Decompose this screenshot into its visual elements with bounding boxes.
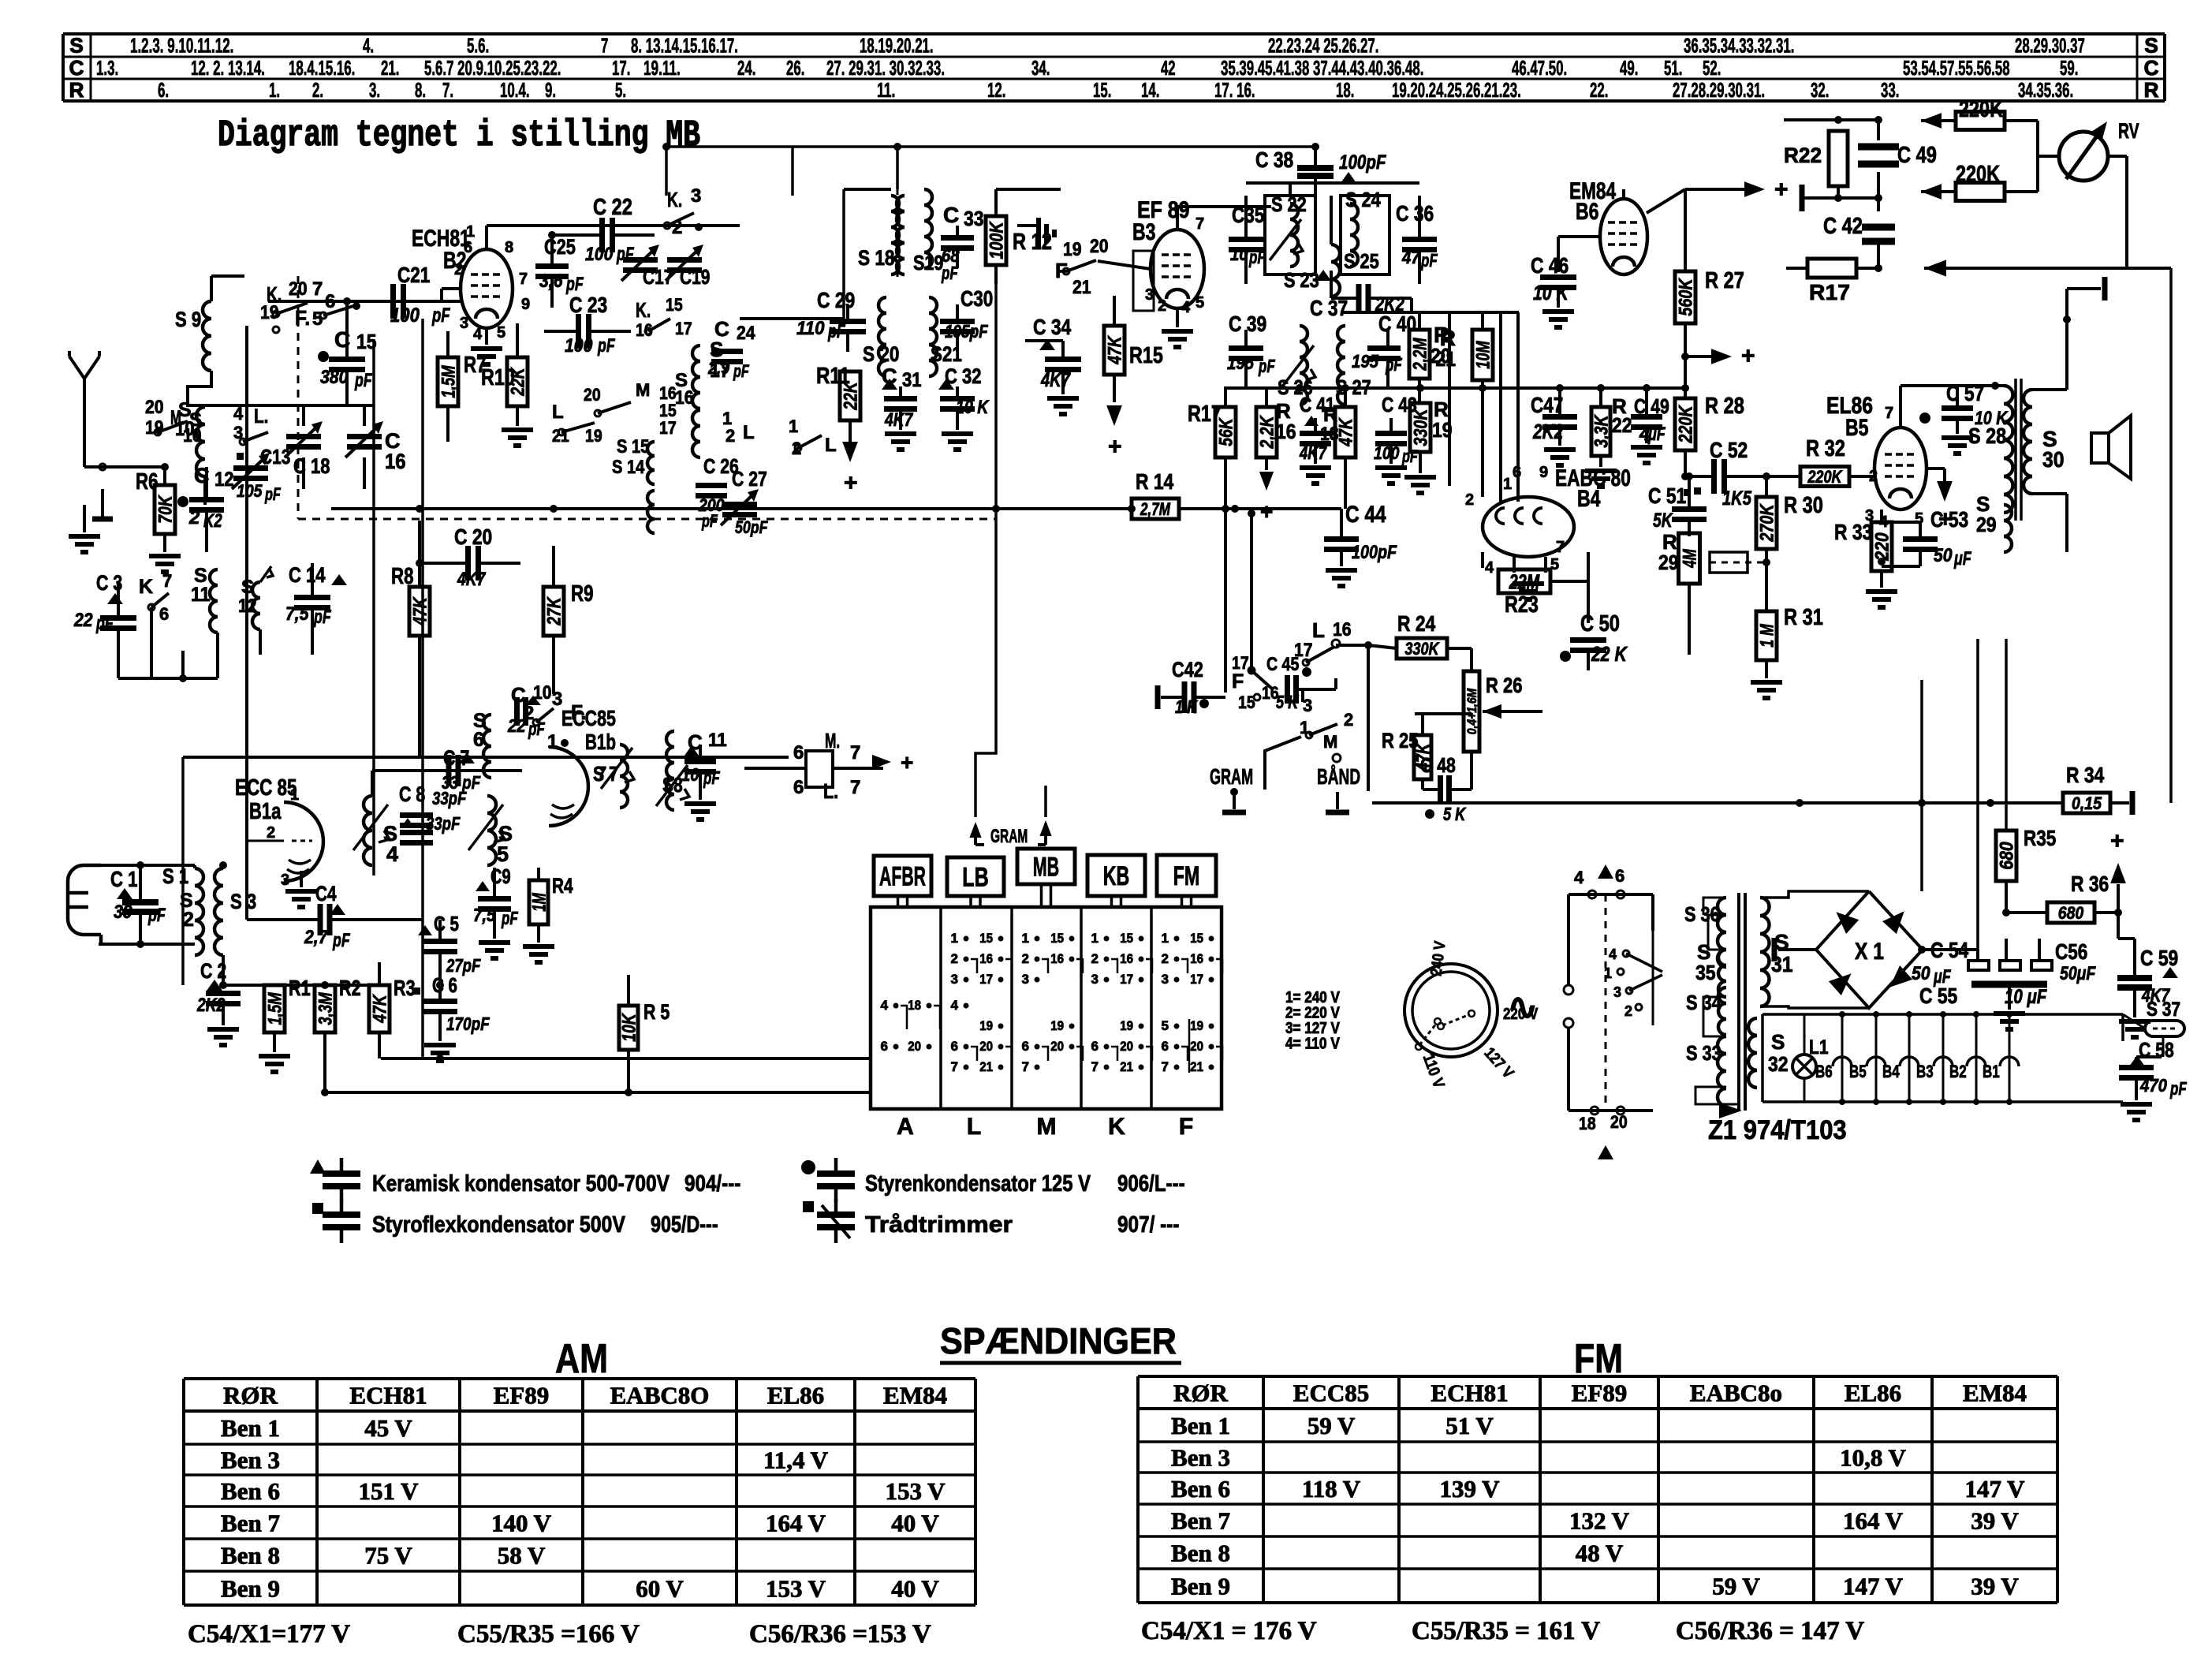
svg-text:51.: 51. [1664,56,1682,80]
svg-text:6: 6 [793,742,804,763]
svg-text:pF: pF [95,613,114,634]
svg-text:5 K: 5 K [1443,804,1466,824]
svg-text:Z1 974/T103: Z1 974/T103 [1708,1115,1847,1145]
svg-text:5: 5 [1162,1018,1169,1033]
svg-text:C 45: C 45 [1266,654,1299,675]
svg-text:35: 35 [1695,961,1716,984]
svg-text:1,5M: 1,5M [438,365,460,398]
svg-text:M: M [1037,1114,1057,1140]
svg-text:46.47.50.: 46.47.50. [1512,56,1567,80]
svg-text:C 34: C 34 [1033,315,1072,339]
svg-text:C 44: C 44 [1345,502,1386,528]
svg-text:29: 29 [1976,513,1997,536]
svg-text:7.: 7. [442,78,453,102]
svg-text:1 M: 1 M [1757,624,1778,648]
svg-text:1: 1 [1300,718,1309,737]
svg-text:S: S [1771,1030,1785,1054]
svg-text:4K7: 4K7 [457,569,487,590]
svg-text:7,5: 7,5 [473,905,496,925]
svg-text:Ben 3: Ben 3 [221,1447,280,1474]
svg-text:B3: B3 [1132,219,1156,245]
svg-text:2: 2 [188,507,200,528]
svg-text:21: 21 [1190,1059,1203,1074]
svg-text:pF: pF [733,361,749,381]
svg-text:C21: C21 [397,263,430,287]
svg-text:6: 6 [1162,1039,1169,1054]
svg-text:C 51: C 51 [1648,483,1686,508]
svg-text:R35: R35 [2024,826,2056,850]
svg-text:S 1: S 1 [162,864,188,888]
svg-text:L.: L. [254,405,268,427]
svg-text:7: 7 [1196,215,1204,233]
svg-text:19: 19 [1120,1018,1133,1033]
svg-text:pF: pF [2169,1078,2187,1099]
svg-text:μF: μF [1953,548,1971,569]
svg-text:C 8: C 8 [399,782,425,806]
svg-text:12: 12 [214,469,234,491]
svg-text:L: L [1312,618,1325,642]
svg-text:20: 20 [979,1039,993,1054]
svg-text:F: F [1055,259,1068,282]
svg-text:B4: B4 [1577,486,1601,512]
svg-text:R 28: R 28 [1705,394,1744,419]
svg-text:R 36: R 36 [2071,872,2109,896]
svg-text:6: 6 [793,777,804,798]
svg-text:2.: 2. [312,78,323,102]
svg-text:139 V: 139 V [1439,1475,1500,1503]
svg-text:A: A [897,1114,914,1140]
svg-text:19: 19 [1050,1018,1064,1033]
svg-text:195: 195 [1227,353,1255,373]
svg-text:C 2: C 2 [200,959,226,983]
svg-text:μF: μF [1647,424,1666,445]
svg-text:KB: KB [1103,861,1129,891]
svg-text:33pF: 33pF [426,813,461,834]
svg-text:0,4+1,6M: 0,4+1,6M [1464,688,1479,734]
svg-text:59 V: 59 V [1712,1573,1760,1600]
svg-text:C 49: C 49 [1634,394,1669,418]
svg-text:C 57: C 57 [1946,381,1984,405]
svg-text:45 V: 45 V [364,1414,412,1442]
svg-text:147 V: 147 V [1964,1475,2025,1503]
svg-text:Styroflexkondensator 500V: Styroflexkondensator 500V [372,1212,626,1238]
svg-text:29: 29 [1658,551,1679,574]
svg-text:R10: R10 [481,365,515,390]
svg-text:S 9: S 9 [175,308,201,331]
svg-text:R22: R22 [1784,144,1822,167]
svg-text:C4: C4 [315,882,337,905]
svg-text:19: 19 [1190,1018,1203,1033]
svg-text:Diagram tegnet i stilling MB: Diagram tegnet i stilling MB [218,115,700,157]
svg-text:3,3M: 3,3M [315,992,337,1025]
svg-text:3: 3 [1613,984,1621,1000]
svg-text:1.2.3. 9.10.11.12.: 1.2.3. 9.10.11.12. [130,34,233,58]
svg-text:M.: M. [825,729,840,752]
svg-text:B3: B3 [1916,1062,1934,1081]
svg-text:EABC8o: EABC8o [1690,1379,1782,1407]
svg-text:10 K: 10 K [1533,281,1570,304]
svg-text:6: 6 [1091,1039,1099,1054]
svg-text:R 24: R 24 [1397,611,1436,636]
svg-text:R 5: R 5 [643,1000,670,1024]
svg-text:1.: 1. [269,78,280,102]
svg-text:R 34: R 34 [2066,763,2105,787]
svg-text:C54/X1=177 V: C54/X1=177 V [188,1620,350,1648]
svg-text:20: 20 [1190,1039,1203,1054]
svg-text:+: + [2110,828,2124,854]
svg-text:C55/R35 = 161 V: C55/R35 = 161 V [1412,1617,1600,1645]
svg-text:18: 18 [1320,424,1339,445]
svg-text:R: R [2144,78,2159,102]
svg-text:RØR: RØR [223,1382,278,1409]
svg-text:10: 10 [681,764,699,785]
svg-text:20: 20 [1090,236,1109,257]
svg-text:100: 100 [585,244,614,265]
svg-text:70K: 70K [155,495,177,524]
svg-text:S: S [2144,34,2158,58]
svg-text:27.28.29.30.31.: 27.28.29.30.31. [1673,78,1765,102]
svg-text:EF89: EF89 [494,1382,550,1409]
svg-text:7: 7 [162,571,172,591]
svg-text:11: 11 [191,584,211,606]
svg-text:26.: 26. [786,56,804,80]
svg-text:5.6.: 5.6. [467,34,489,58]
svg-text:4K7: 4K7 [884,409,914,431]
svg-text:75 V: 75 V [364,1542,412,1570]
svg-text:pF: pF [597,335,615,357]
svg-text:220K: 220K [1807,467,1844,487]
svg-text:BÅND: BÅND [1317,764,1360,789]
svg-text:11.: 11. [877,78,895,102]
svg-text:2,7: 2,7 [304,927,329,948]
svg-text:2: 2 [1162,951,1169,966]
svg-text:L.: L. [823,779,838,803]
svg-text:EL86: EL86 [1845,1379,1901,1407]
svg-text:153 V: 153 V [766,1575,826,1603]
svg-text:17: 17 [1190,972,1203,987]
svg-text:C 55: C 55 [1919,984,1957,1008]
svg-text:110: 110 [796,318,825,339]
svg-text:6: 6 [1022,1039,1029,1054]
svg-text:17: 17 [1120,972,1133,987]
svg-text:2: 2 [1022,951,1029,966]
svg-text:47K: 47K [410,596,431,626]
svg-text:M: M [1323,732,1337,752]
svg-text:22: 22 [1612,413,1632,437]
svg-text:R4: R4 [552,874,573,898]
svg-text:4= 110 V: 4= 110 V [1285,1036,1340,1053]
svg-text:B4: B4 [1882,1062,1900,1081]
svg-text:27. 29.31. 30.32.33.: 27. 29.31. 30.32.33. [826,56,945,80]
svg-text:100: 100 [390,304,420,327]
svg-text:C56: C56 [2055,939,2087,964]
svg-text:22.23.24 25.26.27.: 22.23.24 25.26.27. [1268,34,1378,58]
svg-text:GRAM: GRAM [990,826,1028,847]
svg-text:C 27: C 27 [732,467,767,491]
svg-text:C 6: C 6 [432,973,457,997]
svg-text:1: 1 [951,931,958,946]
svg-text:17. 16.: 17. 16. [1214,78,1255,102]
svg-text:105: 105 [237,481,263,501]
svg-text:6: 6 [951,1039,958,1054]
svg-text:24.: 24. [737,56,755,80]
svg-text:4M: 4M [1680,548,1701,568]
svg-text:3.: 3. [369,78,380,102]
svg-text:C56/R36 = 147 V: C56/R36 = 147 V [1676,1617,1864,1645]
svg-text:1: 1 [1091,931,1099,946]
svg-text:100: 100 [565,335,593,357]
svg-text:RØR: RØR [1173,1379,1229,1407]
svg-text:GRAM: GRAM [1210,764,1253,789]
svg-text:S 15: S 15 [617,436,649,457]
svg-text:B1: B1 [1983,1062,2000,1081]
svg-text:22: 22 [507,715,526,736]
svg-text:6: 6 [159,604,169,624]
svg-text:2K2: 2K2 [196,995,226,1016]
svg-text:Ben 1: Ben 1 [221,1414,280,1442]
svg-text:C42: C42 [1172,658,1203,681]
svg-text:C 52: C 52 [1710,438,1748,462]
svg-text:C 36: C 36 [1396,201,1434,226]
svg-text:4: 4 [881,998,889,1013]
svg-text:47K: 47K [1336,417,1357,447]
svg-text:1: 1 [290,786,299,804]
svg-text:59.: 59. [2060,56,2078,80]
svg-text:1: 1 [1162,931,1169,946]
svg-text:2,9: 2,9 [707,358,730,378]
svg-text:195: 195 [1352,351,1379,371]
svg-text:K: K [139,576,153,598]
svg-text:S19: S19 [913,251,943,274]
svg-text:39 V: 39 V [1971,1507,2019,1535]
svg-text:16: 16 [675,387,694,409]
svg-text:11: 11 [708,730,727,751]
svg-text:195pF: 195pF [945,321,988,342]
svg-text:pF: pF [501,908,518,928]
svg-text:10M: 10M [1473,341,1494,369]
svg-text:C 22: C 22 [593,195,632,220]
svg-text:20: 20 [908,1039,921,1054]
svg-text:47K: 47K [370,994,391,1024]
svg-text:S 18: S 18 [858,246,894,270]
svg-text:S 22: S 22 [1271,192,1307,216]
svg-text:3: 3 [691,185,701,207]
svg-text:L: L [552,401,564,423]
svg-text:ECC85: ECC85 [1293,1379,1369,1407]
svg-text:12.: 12. [987,78,1005,102]
svg-text:330K: 330K [1411,408,1432,446]
svg-text:7: 7 [601,34,608,58]
svg-text:6: 6 [1615,866,1624,886]
svg-text:K.: K. [636,298,651,322]
svg-text:100: 100 [1374,443,1400,463]
svg-text:R: R [69,78,84,102]
svg-text:12. 2. 13.14.: 12. 2. 13.14. [191,56,265,80]
svg-text:pF: pF [264,484,281,504]
svg-text:10.4.: 10.4. [500,78,530,102]
svg-text:904/---: 904/--- [684,1171,740,1197]
svg-text:6.: 6. [158,78,169,102]
svg-text:pF: pF [1420,250,1438,271]
svg-text:4: 4 [951,998,959,1013]
svg-text:4: 4 [386,842,398,866]
svg-text:18.: 18. [1336,78,1354,102]
svg-text:pF: pF [147,905,166,926]
svg-text:pF: pF [565,274,584,295]
svg-text:pF: pF [1258,356,1275,376]
svg-text:S 28: S 28 [1968,424,2006,448]
svg-text:3: 3 [281,872,289,889]
svg-text:S 27: S 27 [1336,375,1371,399]
svg-text:7: 7 [1091,1059,1099,1074]
svg-text:2: 2 [1158,297,1166,315]
svg-text:40 V: 40 V [891,1510,939,1537]
svg-text:pF: pF [701,511,718,531]
svg-text:20: 20 [145,397,164,418]
svg-text:21: 21 [979,1059,993,1074]
svg-text:pF: pF [528,719,545,739]
svg-text:470: 470 [2139,1075,2167,1096]
svg-text:C25: C25 [544,235,576,259]
svg-text:9: 9 [1539,464,1548,481]
svg-text:2: 2 [1465,491,1474,509]
svg-text:Trådtrimmer: Trådtrimmer [865,1212,1013,1238]
svg-text:5.: 5. [615,78,626,102]
svg-text:8. 13.14.15.16.17.: 8. 13.14.15.16.17. [631,34,738,58]
svg-text:51 V: 51 V [1445,1412,1494,1439]
svg-text:27K: 27K [544,596,565,626]
svg-text:22.: 22. [1590,78,1608,102]
svg-text:C30: C30 [961,286,993,311]
svg-text:7: 7 [850,777,860,798]
svg-text:31: 31 [902,369,922,391]
svg-text:10K: 10K [619,1013,640,1042]
svg-text:24: 24 [737,323,755,344]
svg-text:7: 7 [1022,1059,1029,1074]
svg-text:22M: 22M [1509,569,1540,593]
svg-text:15: 15 [1120,931,1133,946]
svg-text:6: 6 [325,291,335,312]
svg-text:16: 16 [1050,951,1064,966]
svg-text:16: 16 [636,320,653,340]
svg-text:FM: FM [1173,861,1199,891]
svg-text:680: 680 [2058,903,2084,923]
svg-text:16: 16 [979,951,993,966]
svg-text:14.: 14. [1141,78,1159,102]
svg-text:C19: C19 [680,265,710,289]
svg-text:S 3: S 3 [230,890,256,913]
svg-text:19: 19 [145,417,164,439]
svg-text:1: 1 [1503,476,1512,493]
svg-text:B5: B5 [1845,415,1869,441]
svg-text:10,8 V: 10,8 V [1840,1444,1906,1472]
svg-text:pF: pF [354,370,372,391]
svg-text:2: 2 [672,217,682,238]
svg-text:60 V: 60 V [636,1575,684,1603]
svg-text:K: K [1108,1114,1125,1140]
svg-text:3: 3 [1022,972,1029,987]
svg-text:R9: R9 [571,581,594,607]
svg-text:C 48: C 48 [1420,753,1456,777]
svg-text:28.29.30.37: 28.29.30.37 [2015,34,2085,58]
svg-text:5: 5 [497,324,505,342]
svg-text:270K: 270K [1757,503,1778,542]
svg-text:∿: ∿ [1507,986,1538,1027]
svg-text:B1a: B1a [249,799,282,824]
svg-text:100pF: 100pF [1339,151,1386,174]
svg-text:2: 2 [1091,951,1099,966]
svg-text:X 1: X 1 [1855,939,1884,965]
svg-text:C 49: C 49 [1897,143,1937,168]
svg-text:1K5: 1K5 [1722,487,1752,510]
svg-text:18.19.20.21.: 18.19.20.21. [860,34,934,58]
svg-text:R1: R1 [289,976,311,1000]
svg-text:220K: 220K [1676,405,1697,443]
svg-text:K.: K. [667,188,682,211]
svg-text:2,7M: 2,7M [1140,499,1170,519]
svg-text:pF: pF [1248,247,1266,267]
svg-text:L: L [825,435,837,456]
svg-text:C 20: C 20 [454,525,492,549]
svg-text:3: 3 [460,315,468,332]
svg-text:220: 220 [1872,532,1893,562]
svg-text:164 V: 164 V [1843,1507,1904,1535]
svg-text:140 V: 140 V [491,1510,552,1537]
svg-text:53.54.57.55.56.58: 53.54.57.55.56.58 [1903,56,2010,80]
svg-text:S 25: S 25 [1344,249,1379,273]
svg-text:3: 3 [1145,286,1154,304]
svg-text:Styrenkondensator 125 V: Styrenkondensator 125 V [865,1171,1091,1197]
svg-text:R23: R23 [1505,592,1539,618]
svg-text:18: 18 [1579,1114,1596,1133]
svg-text:15: 15 [1238,693,1255,712]
svg-text:11,4 V: 11,4 V [763,1447,829,1474]
svg-text:Ben 9: Ben 9 [221,1575,280,1603]
svg-text:Ben 9: Ben 9 [1171,1573,1230,1600]
svg-text:560K: 560K [1676,278,1697,316]
svg-text:S 23: S 23 [1284,268,1319,292]
svg-text:19.20.24.25.26.21.23.: 19.20.24.25.26.21.23. [1392,78,1521,102]
svg-text:16: 16 [1190,951,1203,966]
svg-text:pF: pF [332,930,350,951]
svg-text:Keramisk kondensator 500-700V: Keramisk kondensator 500-700V [372,1171,670,1197]
svg-text:32.: 32. [1811,78,1829,102]
svg-text:3,6: 3,6 [539,271,563,292]
svg-text:0,15: 0,15 [2072,793,2102,813]
svg-text:906/L---: 906/L--- [1117,1171,1185,1197]
svg-text:+: + [1774,177,1789,203]
svg-text:17: 17 [659,418,677,438]
svg-text:M: M [636,380,650,400]
svg-text:pF: pF [431,304,450,327]
svg-text:1M: 1M [529,892,550,911]
svg-text:34.35.36.: 34.35.36. [2018,78,2073,102]
svg-text:4K7: 4K7 [1040,369,1071,391]
svg-text:4: 4 [1609,946,1617,962]
svg-text:+: + [1741,343,1755,369]
svg-text:S 20: S 20 [863,342,899,366]
svg-text:B2: B2 [1949,1062,1967,1081]
svg-text:48 V: 48 V [1576,1540,1624,1567]
svg-text:380: 380 [320,367,349,388]
svg-text:C 53: C 53 [1930,507,1968,532]
svg-text:1: 1 [1022,931,1029,946]
svg-text:1: 1 [789,416,798,436]
svg-text:4: 4 [1485,559,1494,577]
svg-text:16: 16 [1276,420,1296,443]
svg-text:4: 4 [473,326,483,343]
svg-text:1.3.: 1.3. [96,56,118,80]
